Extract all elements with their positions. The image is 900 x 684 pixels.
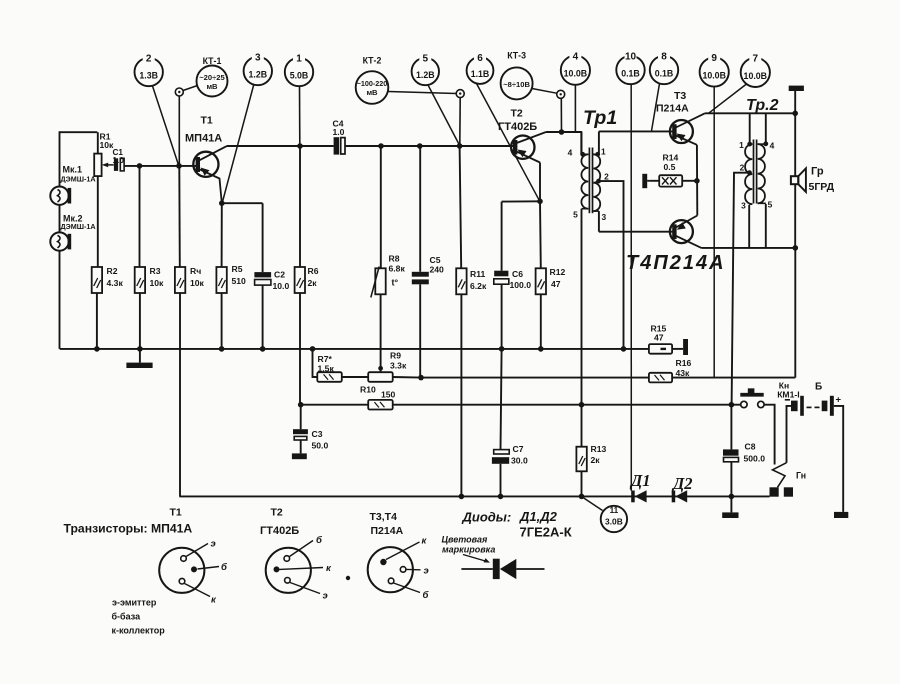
- ground (under C8): [722, 496, 738, 518]
- svg-text:4: 4: [568, 148, 573, 158]
- battery Б: [785, 382, 843, 512]
- svg-text:2: 2: [740, 162, 745, 172]
- svg-text:43к: 43к: [676, 368, 691, 378]
- transistor T1 МП41А: [185, 115, 227, 204]
- svg-text:Тр.2: Тр.2: [746, 97, 779, 114]
- transistor T3 П214А: [656, 90, 705, 145]
- resistor R4 10к: [175, 166, 205, 497]
- test circle 9 (10.0В): [700, 50, 729, 377]
- svg-text:R5: R5: [232, 264, 243, 274]
- wire: Тр1 pin3 down: [598, 211, 600, 232]
- svg-text:10.0В: 10.0В: [702, 71, 725, 81]
- svg-text:3.3к: 3.3к: [390, 361, 407, 371]
- svg-text:10к: 10к: [150, 278, 165, 288]
- svg-text:5ГРД: 5ГРД: [809, 181, 835, 193]
- svg-text:R7*: R7*: [318, 354, 333, 364]
- svg-text:э-эмиттер: э-эмиттер: [112, 598, 157, 608]
- wire: T2 emitter node: [502, 163, 543, 205]
- test circle 3 (1.2В): [222, 50, 272, 203]
- capacitor C5 240: [412, 146, 444, 378]
- wire: feedback line: [421, 248, 795, 378]
- svg-text:5.0В: 5.0В: [290, 71, 309, 81]
- svg-text:R2: R2: [107, 266, 118, 276]
- svg-text:мВ: мВ: [366, 88, 378, 97]
- svg-text:Д1: Д1: [629, 471, 651, 490]
- svg-text:Rч: Rч: [190, 266, 201, 276]
- svg-text:~100-220: ~100-220: [357, 79, 388, 88]
- wire: Тр1 pin4 to collector rail: [581, 132, 583, 154]
- jack Гн: [770, 463, 807, 497]
- wire: mic column to ground bus: [59, 251, 61, 349]
- svg-text:маркировка: маркировка: [442, 545, 495, 555]
- capacitor C1 1.0: [113, 148, 125, 171]
- test circle 7 (10.0В): [709, 51, 770, 114]
- resistor R10 150: [360, 385, 396, 410]
- svg-text:2: 2: [604, 172, 609, 182]
- svg-text:510: 510: [232, 276, 247, 286]
- svg-text:2к: 2к: [591, 455, 601, 465]
- legend: diodes title: [462, 509, 572, 540]
- svg-text:Т3: Т3: [674, 90, 686, 102]
- test circle 11 (3.0В): [583, 498, 627, 533]
- test circle 8 (0.1В): [650, 49, 678, 131]
- svg-text:ГТ402Б: ГТ402Б: [260, 525, 299, 537]
- svg-text:КТ-2: КТ-2: [363, 56, 382, 66]
- svg-text:Т1: Т1: [201, 115, 213, 127]
- svg-text:11: 11: [610, 506, 619, 515]
- wire: Тр2 pin1 up: [749, 113, 751, 144]
- wire: top rail (T3 collector): [705, 111, 798, 117]
- diode D1: [629, 471, 651, 503]
- svg-text:R16: R16: [676, 358, 692, 368]
- svg-text:П214А: П214А: [371, 525, 404, 537]
- svg-text:мВ: мВ: [206, 82, 218, 91]
- svg-text:R13: R13: [591, 444, 607, 454]
- wire: T4 collector / Тр2 bottom line: [701, 204, 798, 251]
- capacitor C6 100.0: [494, 202, 531, 349]
- svg-text:5: 5: [423, 54, 429, 65]
- resistor R12 47: [536, 201, 566, 349]
- svg-text:1.2В: 1.2В: [416, 70, 435, 80]
- svg-text:30.0: 30.0: [511, 456, 528, 466]
- microphone Мк1 ДЭМШ-1А: [50, 165, 95, 205]
- svg-text:Цветовая: Цветовая: [442, 535, 488, 545]
- legend: title transistors: [64, 507, 193, 536]
- svg-text:R9: R9: [390, 351, 401, 361]
- transistor T4 П214А: [626, 216, 726, 275]
- legend: diode symbol: [461, 559, 544, 579]
- wire: Тр2 pin4 up: [765, 113, 767, 144]
- svg-text:1.3В: 1.3В: [139, 71, 158, 81]
- svg-text:5: 5: [573, 210, 578, 220]
- svg-text:Т2: Т2: [511, 108, 523, 120]
- transformer Тр1: [568, 107, 618, 222]
- svg-text:R12: R12: [550, 267, 566, 277]
- svg-text:КТ-3: КТ-3: [507, 51, 526, 61]
- legend: T1 pinout: [159, 539, 228, 606]
- svg-text:3.0В: 3.0В: [605, 517, 623, 527]
- svg-text:КТ-1: КТ-1: [203, 56, 222, 66]
- svg-text:10: 10: [625, 52, 637, 63]
- node: R4/base tap: [176, 163, 182, 169]
- wire: between microphones: [59, 205, 61, 233]
- svg-text:R14: R14: [663, 153, 679, 163]
- diode D2: [671, 474, 693, 503]
- svg-text:R3: R3: [150, 266, 161, 276]
- svg-text:0.5: 0.5: [664, 162, 676, 172]
- svg-text:4.3к: 4.3к: [107, 278, 124, 288]
- speaker Гр 5ГРД: [791, 113, 835, 248]
- svg-text:С2: С2: [274, 270, 285, 280]
- wire: ground bus: [60, 346, 649, 352]
- wire: T2 collector rail: [546, 132, 581, 154]
- svg-text:Тр1: Тр1: [583, 107, 617, 129]
- svg-text:2к: 2к: [308, 278, 318, 288]
- svg-text:7: 7: [753, 54, 759, 65]
- svg-text:1.0: 1.0: [113, 156, 125, 165]
- capacitor C7 30.0: [492, 349, 528, 497]
- svg-text:9: 9: [711, 53, 717, 64]
- capacitor C4 1.0: [333, 119, 346, 155]
- svg-text:150: 150: [381, 390, 396, 400]
- svg-text:С5: С5: [430, 255, 441, 265]
- thermistor R8 6.8к: [371, 146, 406, 372]
- resistor R5 510: [216, 203, 246, 349]
- wire: main rail C4 to T2: [345, 143, 514, 149]
- svg-text:R11: R11: [470, 269, 486, 279]
- svg-text:6.2к: 6.2к: [470, 281, 487, 291]
- svg-text:Т2: Т2: [271, 507, 283, 519]
- svg-text:э: э: [424, 566, 429, 577]
- capacitor C8 500.0: [723, 405, 765, 497]
- wire: input loop top rail: [60, 131, 98, 187]
- resistor R3 10к: [135, 166, 164, 349]
- switch Кн КМ1-I: [734, 381, 800, 465]
- transistor T2 ГТ402Б: [498, 108, 546, 163]
- svg-text:МП41А: МП41А: [185, 133, 222, 145]
- svg-text:КМ1-I: КМ1-I: [777, 390, 799, 400]
- svg-text:t°: t°: [392, 278, 399, 288]
- svg-text:1.5к: 1.5к: [318, 364, 335, 374]
- test circle 4 (10.0В): [561, 49, 590, 132]
- wire: T1 base line: [124, 165, 197, 167]
- ground bar (R15 right): [683, 339, 688, 355]
- test circle 6 (1.1В): [467, 50, 540, 201]
- svg-text:1.1В: 1.1В: [471, 69, 490, 79]
- svg-text:Д2: Д2: [671, 474, 693, 493]
- ground (battery plus): [834, 512, 848, 518]
- svg-text:Д1,Д2: Д1,Д2: [519, 509, 558, 524]
- svg-text:С3: С3: [312, 429, 323, 439]
- svg-text:240: 240: [430, 265, 445, 275]
- svg-text:4: 4: [573, 51, 579, 62]
- svg-text:1: 1: [601, 147, 606, 157]
- svg-text:10.0В: 10.0В: [564, 69, 587, 79]
- svg-text:~8÷10В: ~8÷10В: [503, 80, 530, 89]
- wire: bottom rail: [179, 494, 769, 500]
- svg-text:2: 2: [146, 54, 152, 65]
- svg-text:1: 1: [739, 140, 744, 150]
- legend: colour mark note: [442, 535, 496, 563]
- node: T1 emitter: [219, 200, 225, 206]
- test point КТ-1: [175, 56, 227, 165]
- ground (top right): [789, 86, 804, 114]
- test circle 2 (1.3В): [135, 51, 179, 165]
- svg-text:3: 3: [601, 212, 606, 222]
- svg-text:С6: С6: [512, 269, 523, 279]
- svg-text:47: 47: [654, 333, 664, 343]
- svg-text:1.2В: 1.2В: [249, 70, 268, 80]
- svg-text:э: э: [211, 539, 216, 550]
- node: C5 feedback junction: [393, 375, 424, 381]
- microphone Мк2 ДЭМШ-1А: [50, 213, 95, 251]
- svg-text:6.8к: 6.8к: [389, 264, 406, 274]
- svg-text:10к: 10к: [190, 278, 205, 288]
- test point КТ-2: [356, 56, 465, 146]
- svg-text:Мк.1: Мк.1: [63, 165, 83, 175]
- legend: T3 T4 pinout: [368, 511, 430, 601]
- test point КТ-3: [501, 51, 565, 135]
- svg-text:47: 47: [551, 279, 561, 289]
- svg-text:3: 3: [255, 53, 261, 64]
- legend: pin names: [112, 598, 166, 636]
- legend: separator dot: [346, 576, 350, 580]
- svg-text:ДЭМШ-1А: ДЭМШ-1А: [61, 222, 96, 231]
- svg-text:Т3,Т4: Т3,Т4: [370, 511, 398, 523]
- ground (under R3): [126, 349, 152, 368]
- wire: Тр1 pin2 to bus: [599, 181, 624, 349]
- potentiometer R1 10к: [94, 131, 114, 267]
- test circle 5 (1.2В): [412, 51, 460, 145]
- resistor R15 47: [649, 324, 683, 354]
- svg-text:Диоды:: Диоды:: [462, 510, 512, 525]
- svg-text:Транзисторы: МП41А: Транзисторы: МП41А: [64, 522, 193, 536]
- svg-text:Т4П214А: Т4П214А: [626, 252, 726, 274]
- svg-text:4: 4: [770, 141, 775, 151]
- svg-text:7ГЕ2А-К: 7ГЕ2А-К: [520, 525, 572, 540]
- svg-text:ДЭМШ-1А: ДЭМШ-1А: [61, 175, 96, 184]
- svg-text:0.1В: 0.1В: [621, 69, 640, 79]
- svg-text:3: 3: [741, 201, 746, 211]
- test circle 10 (0.1В): [616, 49, 644, 491]
- svg-text:С8: С8: [745, 442, 756, 452]
- wire: supply line: [298, 402, 734, 408]
- svg-text:8: 8: [661, 52, 667, 63]
- resistor R16 43к: [649, 358, 692, 382]
- node: R3 tap: [137, 163, 143, 169]
- wire: T4 base line: [599, 231, 673, 233]
- svg-text:50.0: 50.0: [312, 441, 329, 451]
- svg-text:~20÷25: ~20÷25: [199, 73, 225, 82]
- resistor R11 6.2к: [456, 146, 487, 496]
- legend: T2 pinout: [260, 507, 332, 602]
- svg-text:б-база: б-база: [112, 612, 142, 622]
- wire: T1 collector rail: [227, 143, 334, 149]
- wire: T3 base line: [599, 130, 673, 132]
- capacitor C3 50.0: [292, 405, 329, 459]
- svg-text:R10: R10: [360, 385, 376, 395]
- svg-text:R6: R6: [308, 266, 319, 276]
- svg-text:+: +: [836, 395, 842, 406]
- svg-text:Гр: Гр: [811, 166, 824, 178]
- svg-text:С7: С7: [513, 444, 524, 454]
- test circle 1 (5.0В): [285, 51, 313, 146]
- capacitor C2 10.0: [222, 203, 290, 349]
- svg-text:Т1: Т1: [170, 507, 182, 519]
- resistor R7* 1.5к: [313, 349, 342, 382]
- wire: Тр1 pin1 up: [598, 131, 600, 154]
- svg-text:500.0: 500.0: [744, 454, 766, 464]
- svg-text:1.0: 1.0: [333, 127, 345, 137]
- resistor R6 2к: [295, 146, 319, 405]
- resistor R9 3.3к: [342, 351, 407, 382]
- svg-text:Гн: Гн: [796, 471, 806, 481]
- svg-text:к-коллектор: к-коллектор: [112, 626, 166, 636]
- svg-text:10.0: 10.0: [273, 281, 290, 291]
- svg-text:ГТ402Б: ГТ402Б: [498, 121, 537, 133]
- svg-text:100.0: 100.0: [510, 280, 532, 290]
- resistor R13 2к: [576, 405, 606, 497]
- svg-text:э: э: [323, 591, 328, 602]
- svg-text:5: 5: [768, 200, 773, 210]
- transformer Тр2: [739, 97, 778, 211]
- svg-text:Б: Б: [815, 382, 822, 393]
- svg-text:П214А: П214А: [656, 103, 689, 115]
- ground bar (R14 left): [642, 174, 649, 188]
- svg-text:0.1В: 0.1В: [655, 69, 674, 79]
- wire: Тр2 pin2 to supply: [732, 173, 750, 405]
- wire: Тр1 pin5 down: [581, 209, 583, 405]
- svg-text:R8: R8: [389, 254, 400, 264]
- resistor R2 4.3к: [92, 266, 124, 349]
- resistor R14 0.5: [649, 153, 697, 187]
- svg-text:10.0В: 10.0В: [744, 71, 767, 81]
- wire: T3/T4 emitters junction: [694, 145, 700, 216]
- svg-text:1: 1: [296, 54, 302, 65]
- svg-text:6: 6: [477, 53, 483, 64]
